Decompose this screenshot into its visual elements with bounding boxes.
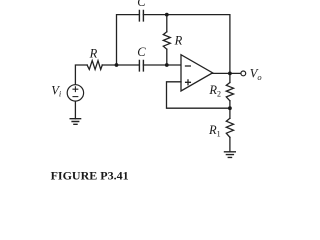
resistor R input (horizontal) xyxy=(87,61,102,70)
wire Vi to ground xyxy=(74,101,76,119)
op-amp U1 triangle xyxy=(181,55,213,91)
source Vi circle xyxy=(67,85,83,101)
wire op-amp output xyxy=(213,72,241,74)
svg-text:C: C xyxy=(137,0,146,9)
svg-text:Vo: Vo xyxy=(250,67,262,82)
svg-text:R1: R1 xyxy=(208,123,221,138)
wire R2 to node xyxy=(229,101,231,119)
wire top-right horizontal xyxy=(143,15,230,74)
wire vertical R branch top stub xyxy=(166,15,168,32)
wire main row left xyxy=(75,65,87,85)
ground right xyxy=(225,152,236,158)
node junction after R input xyxy=(115,63,119,67)
node output xyxy=(228,72,232,76)
op-amp minus sign xyxy=(186,65,191,67)
resistor R feedback (vertical) xyxy=(163,32,170,49)
wire vertical R branch bottom stub xyxy=(166,49,168,65)
wire noninverting loop xyxy=(167,82,230,108)
wire C to inverting node xyxy=(143,64,181,66)
svg-text:FIGURE P3.41: FIGURE P3.41 xyxy=(51,169,129,183)
resistor R1 (vertical) xyxy=(226,118,233,137)
svg-text:R: R xyxy=(174,34,183,48)
source plus sign xyxy=(73,87,78,92)
ground left xyxy=(70,119,80,125)
resistor R2 (vertical) xyxy=(226,83,233,101)
svg-text:R2: R2 xyxy=(208,83,221,98)
svg-text:R: R xyxy=(89,46,98,60)
svg-text:C: C xyxy=(137,45,146,59)
output terminal circle xyxy=(241,71,246,76)
wire top-left horizontal xyxy=(117,15,140,65)
node junction top wire xyxy=(165,13,169,17)
capacitor C top plates xyxy=(139,10,143,21)
svg-text:Vi: Vi xyxy=(51,83,62,98)
wire output to R2 xyxy=(229,73,231,82)
wire R1 to ground xyxy=(229,137,231,152)
source minus sign xyxy=(73,96,78,98)
wire between R and C middle xyxy=(102,64,139,66)
capacitor C middle plates xyxy=(139,60,143,71)
node R2-R1 junction xyxy=(228,106,232,110)
op-amp plus sign xyxy=(186,80,191,85)
node inverting input xyxy=(165,63,169,67)
